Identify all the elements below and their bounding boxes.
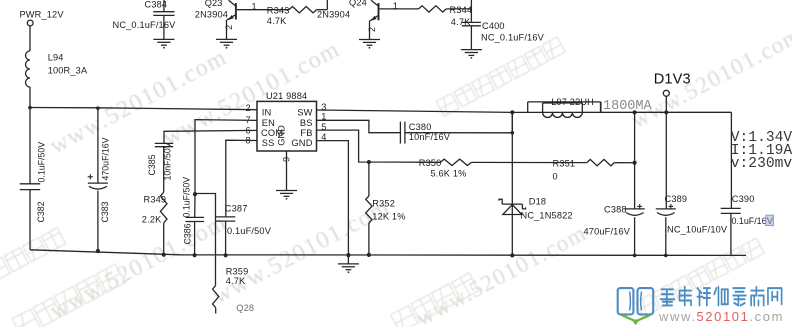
svg-text:Q23: Q23 — [205, 0, 223, 8]
svg-text:4.7K: 4.7K — [226, 276, 246, 286]
svg-text:100R_3A: 100R_3A — [48, 66, 88, 76]
svg-text:NC_0.1uF/16V: NC_0.1uF/16V — [113, 20, 177, 30]
svg-text:0: 0 — [553, 171, 558, 181]
svg-text:2N3904: 2N3904 — [317, 9, 350, 19]
svg-text:470uF/16V: 470uF/16V — [584, 226, 631, 236]
svg-text:R359: R359 — [226, 266, 249, 276]
svg-text:5.6K 1%: 5.6K 1% — [431, 169, 467, 179]
svg-text:V: V — [767, 216, 773, 226]
svg-text:PWR_12V: PWR_12V — [20, 10, 65, 20]
svg-text:BS: BS — [300, 118, 313, 128]
svg-text:2: 2 — [246, 103, 251, 113]
svg-text:GND: GND — [291, 138, 312, 148]
svg-text:D18: D18 — [529, 196, 546, 206]
svg-text:C382: C382 — [36, 201, 46, 222]
svg-text:www.520101.com: www.520101.com — [658, 309, 784, 324]
svg-text:C400: C400 — [482, 21, 505, 31]
svg-text:EN: EN — [262, 118, 275, 128]
svg-text:1: 1 — [252, 2, 257, 12]
svg-text:NC_1N5822: NC_1N5822 — [521, 210, 573, 220]
svg-text:C384: C384 — [145, 0, 168, 10]
svg-text:470uF/16V: 470uF/16V — [101, 137, 111, 180]
svg-text:NC_0.1uF/16V: NC_0.1uF/16V — [481, 33, 545, 43]
svg-text:C389: C389 — [665, 194, 688, 204]
svg-text:C380: C380 — [409, 122, 432, 132]
svg-text:R349: R349 — [144, 195, 167, 205]
svg-text:Q24: Q24 — [349, 0, 367, 7]
svg-text:R343: R343 — [267, 5, 290, 15]
svg-text:0.1uF/50V: 0.1uF/50V — [37, 142, 47, 183]
svg-text:2: 2 — [367, 27, 377, 32]
svg-text:10nF/50V: 10nF/50V — [162, 142, 172, 180]
svg-text:C390: C390 — [732, 194, 755, 204]
svg-text:C386: C386 — [183, 223, 193, 244]
svg-text:10nF/16V: 10nF/16V — [409, 132, 451, 142]
svg-text:C383: C383 — [100, 201, 110, 222]
svg-text:0.1uF/16: 0.1uF/16 — [732, 216, 767, 226]
svg-text:v:230mv: v:230mv — [731, 156, 792, 172]
svg-text:R352: R352 — [372, 199, 395, 209]
svg-text:1800MA: 1800MA — [603, 99, 653, 114]
svg-text:12K 1%: 12K 1% — [372, 211, 405, 221]
svg-text:IN: IN — [262, 108, 272, 118]
svg-text:9: 9 — [282, 157, 292, 162]
svg-text:SW: SW — [297, 108, 312, 118]
svg-text:0.1uF/50V: 0.1uF/50V — [182, 177, 192, 218]
svg-text:1: 1 — [393, 1, 398, 11]
svg-text:2N3904: 2N3904 — [195, 9, 228, 19]
svg-text:R350: R350 — [419, 158, 442, 168]
svg-text:2.2K: 2.2K — [142, 215, 162, 225]
svg-text:2: 2 — [224, 25, 234, 30]
svg-text:U21 9884: U21 9884 — [266, 91, 307, 101]
svg-text:GND: GND — [276, 125, 286, 146]
svg-text:NC_10uF/10V: NC_10uF/10V — [667, 224, 728, 234]
svg-text:L97 22UH: L97 22UH — [551, 97, 594, 107]
svg-text:FB: FB — [300, 128, 312, 138]
svg-text:C385: C385 — [147, 154, 157, 175]
svg-text:R344: R344 — [450, 5, 473, 15]
svg-text:4.7K: 4.7K — [267, 16, 287, 26]
svg-text:R351: R351 — [553, 159, 576, 169]
svg-text:0.1uF/50V: 0.1uF/50V — [227, 226, 272, 236]
svg-text:C388: C388 — [604, 204, 627, 214]
svg-text:SS: SS — [262, 138, 275, 148]
svg-text:C387: C387 — [225, 203, 248, 213]
svg-text:4.7K: 4.7K — [451, 17, 471, 27]
svg-text:Q28: Q28 — [236, 303, 254, 313]
svg-text:L94: L94 — [48, 53, 64, 63]
svg-text:D1V3: D1V3 — [654, 71, 691, 87]
